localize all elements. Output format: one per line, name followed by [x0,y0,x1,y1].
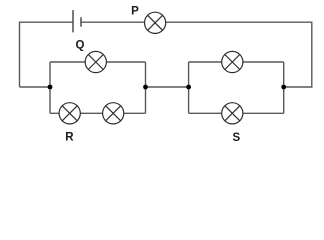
svg-text:Q: Q [76,39,85,51]
svg-text:R: R [65,131,74,143]
svg-text:P: P [131,6,139,18]
svg-text:S: S [232,132,240,144]
